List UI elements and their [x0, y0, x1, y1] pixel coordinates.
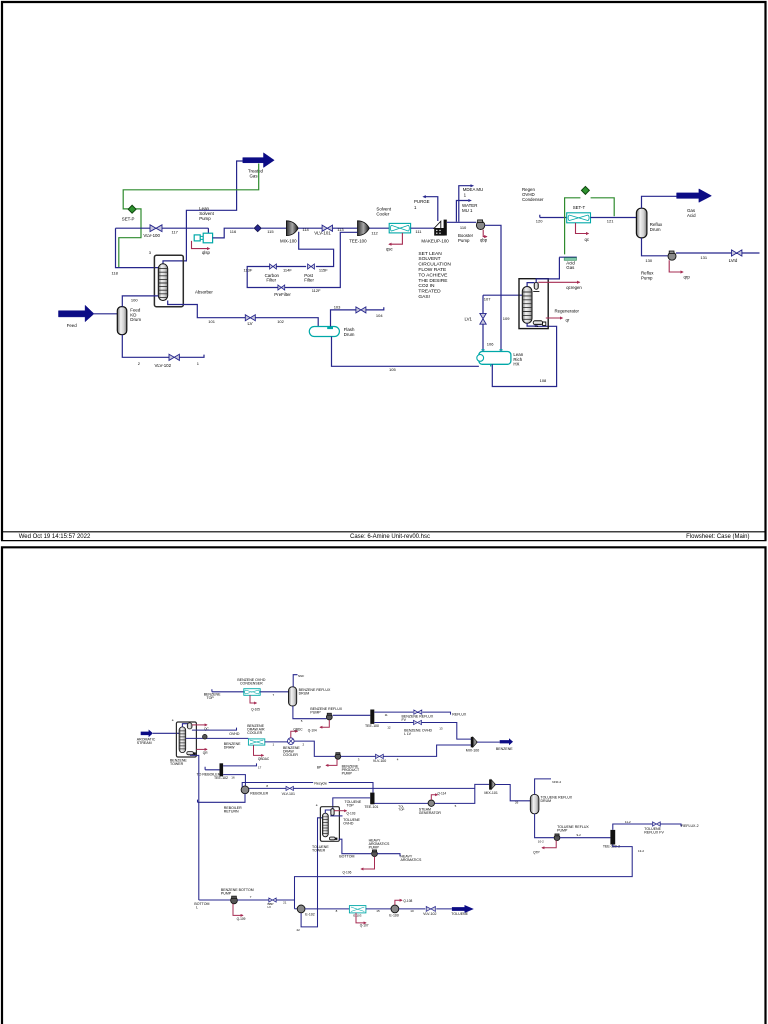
svg-text:SET LEAN: SET LEAN	[418, 251, 442, 257]
pump REBOILER circulation	[241, 786, 249, 794]
svg-text:TOP: TOP	[398, 808, 404, 812]
wire PURGE 1	[426, 197, 438, 221]
wire 107 LV1 to regenerator	[483, 295, 523, 313]
wire 131	[676, 252, 732, 254]
svg-text:RETURN: RETURN	[224, 810, 239, 814]
svg-text:QBDC: QBDC	[293, 728, 303, 732]
svg-text:12: 12	[387, 726, 391, 730]
SET-P diamond	[128, 205, 136, 213]
svg-text:E-102: E-102	[305, 912, 314, 916]
toluene tower box	[320, 807, 339, 842]
wire green SET-T signal	[565, 198, 615, 255]
wire 1	[265, 741, 288, 743]
svg-text:Q-105: Q-105	[251, 707, 260, 711]
wire 100 drum top to absorber	[122, 296, 158, 307]
svg-text:SET-T: SET-T	[573, 205, 586, 210]
wire 16 to reboiler	[223, 775, 245, 786]
energy qlsp	[192, 241, 210, 249]
valve LVrd	[732, 250, 742, 256]
svg-text:Q-108: Q-108	[403, 899, 412, 903]
svg-text:VLV-100: VLV-100	[143, 233, 160, 238]
svg-text:16: 16	[231, 775, 235, 779]
wire drum to reflux pump	[293, 706, 327, 719]
valve VLV-100 (p2)	[376, 754, 384, 758]
svg-text:26: 26	[515, 800, 519, 804]
svg-text:DRUM: DRUM	[541, 799, 552, 803]
svg-text:PUMP: PUMP	[310, 710, 321, 714]
svg-text:BOTTOM: BOTTOM	[339, 855, 354, 859]
wire to BENZENE arrow	[477, 741, 499, 743]
absorber box	[154, 255, 183, 307]
pump Booster Pump	[476, 221, 484, 229]
svg-text:Q-109: Q-109	[237, 917, 246, 921]
svg-text:Pump: Pump	[641, 276, 653, 281]
wire benzene tower bottoms	[190, 755, 199, 900]
svg-text:111: 111	[415, 229, 422, 234]
wire 1	[179, 355, 204, 358]
wire drum top to Gas Acid	[642, 196, 677, 208]
svg-text:COOLER: COOLER	[247, 731, 262, 735]
svg-text:STREAM: STREAM	[137, 741, 152, 745]
svg-text:101: 101	[208, 319, 215, 324]
svg-text:qrp: qrp	[684, 275, 691, 280]
svg-text:BENZENE: BENZENE	[496, 747, 513, 751]
wire feed to KO drum	[94, 313, 117, 315]
pump BENZENE REFLUX PUMP	[326, 714, 332, 720]
filter loop wires	[247, 232, 357, 288]
valve Post Filter	[308, 264, 315, 269]
wire TOLUENE OVHD stub	[330, 815, 342, 817]
svg-text:GENERATOR: GENERATOR	[419, 811, 442, 815]
svg-text:Cooler: Cooler	[376, 211, 389, 216]
wire 117	[116, 227, 209, 229]
tee TEE-100	[358, 221, 370, 236]
energy Q-105	[250, 695, 257, 703]
svg-text:PURGE: PURGE	[414, 199, 430, 204]
energy qc	[576, 223, 589, 234]
svg-text:Q-106: Q-106	[343, 871, 352, 875]
energy qrp	[669, 260, 683, 272]
svg-text:qr: qr	[566, 318, 570, 323]
wire 121	[591, 217, 637, 219]
svg-text:22: 22	[297, 928, 301, 932]
svg-text:DRAW: DRAW	[224, 746, 235, 750]
regenerator column	[522, 287, 532, 324]
svg-text:BENZENE REFLUX: BENZENE REFLUX	[402, 715, 434, 719]
page 1 border frame	[2, 2, 766, 541]
valve VLV-101	[322, 225, 332, 231]
energy qr	[546, 317, 563, 319]
svg-text:VLV-102: VLV-102	[155, 363, 172, 368]
svg-text:MAKEUP-100: MAKEUP-100	[421, 238, 449, 243]
svg-text:Drum: Drum	[344, 332, 355, 337]
mixer MIX-100 (p2)	[471, 737, 473, 747]
wire 130	[642, 238, 668, 256]
svg-text:qcregen: qcregen	[566, 285, 582, 290]
svg-text:Drum: Drum	[130, 317, 141, 322]
wire 120	[540, 215, 567, 218]
vessel Feed KO Drum	[117, 307, 127, 335]
wire BENZENE TOP to condenser	[212, 689, 244, 692]
svg-text:Absorber: Absorber	[195, 289, 213, 294]
energy qcregen	[538, 281, 579, 283]
pump benzene draw	[203, 734, 208, 739]
svg-text:BP: BP	[317, 765, 321, 769]
energy Q-114	[431, 795, 437, 800]
wire 3-4 to MIX	[341, 745, 471, 756]
svg-text:TEE-100: TEE-100	[365, 724, 379, 728]
svg-text:Q-114: Q-114	[438, 791, 447, 795]
svg-text:Flowsheet: Case (Main): Flowsheet: Case (Main)	[686, 534, 749, 540]
svg-text:CONDENSER: CONDENSER	[240, 681, 263, 685]
svg-text:REBOILER: REBOILER	[250, 792, 268, 796]
energy Q-108	[395, 900, 402, 905]
svg-text:118: 118	[112, 270, 119, 275]
wire 17 stub	[223, 763, 256, 766]
regen internal reboiler	[533, 321, 542, 325]
svg-text:17: 17	[258, 765, 262, 769]
wire 10 to VLV-102	[399, 908, 452, 910]
svg-text:105: 105	[389, 367, 396, 372]
wire draw line	[186, 737, 249, 739]
svg-text:MIX-101: MIX-101	[484, 791, 497, 795]
svg-text:131: 131	[700, 255, 707, 260]
tee TEE-100-2 bar	[610, 830, 615, 845]
svg-text:108: 108	[540, 378, 547, 383]
mixer MIX-100	[286, 221, 298, 236]
vessel BENZENE REFLUX DRUM	[289, 687, 297, 706]
svg-text:SET-P: SET-P	[122, 217, 135, 222]
wire 108 HX to regenerator	[492, 325, 556, 387]
svg-text:NNF: NNF	[298, 674, 304, 678]
arrow Gas Acid	[677, 189, 712, 202]
svg-text:11-2: 11-2	[625, 820, 631, 824]
svg-text:112F: 112F	[312, 288, 321, 293]
svg-text:Gas: Gas	[566, 265, 575, 270]
svg-text:Pump: Pump	[458, 238, 470, 243]
svg-text:TO ACHIEVE: TO ACHIEVE	[418, 272, 448, 278]
footer box bottom line	[1, 540, 767, 542]
svg-text:104: 104	[376, 313, 383, 318]
heater STEAM GENERATOR	[428, 800, 434, 806]
wire 7 condenser to reflux drum	[260, 691, 288, 693]
svg-text:106: 106	[487, 341, 494, 346]
absorber column	[158, 264, 167, 301]
energy qsc	[389, 233, 402, 244]
svg-text:DRUM: DRUM	[299, 692, 310, 696]
svg-text:Gas: Gas	[250, 173, 259, 178]
wire reboiler to VLV-101	[249, 787, 475, 789]
benzene tower internal reboiler	[187, 752, 194, 755]
svg-text:CO2 IN: CO2 IN	[418, 283, 435, 289]
wire WATER MU 1	[456, 201, 468, 222]
svg-text:Acid: Acid	[687, 213, 696, 218]
valve LV	[245, 315, 255, 321]
wire HEAVY AROMATICS out	[377, 854, 400, 857]
svg-text:LV: LV	[248, 321, 253, 326]
tee TEE-102 bar	[220, 763, 224, 776]
wire MDEA MU 1	[459, 186, 471, 222]
wire 112	[369, 227, 389, 229]
svg-text:REFLUX: REFLUX	[452, 713, 467, 717]
wire absorber bottoms 101	[168, 301, 246, 318]
svg-text:109: 109	[503, 316, 510, 321]
svg-text:VLV-102: VLV-102	[423, 912, 436, 916]
valve VLV-100	[150, 225, 162, 232]
valve VLV-101 (p2)	[286, 786, 293, 790]
svg-text:L: L	[196, 906, 198, 910]
svg-text:114F: 114F	[283, 268, 292, 273]
wire 118 to absorber	[116, 228, 159, 267]
wire 105 flash to HX	[332, 337, 479, 367]
wire pump to TEE-100-2	[560, 837, 611, 839]
vessel Flash Drum	[309, 327, 339, 337]
svg-text:Filter: Filter	[304, 278, 314, 283]
wire REBOILER RETURN	[198, 794, 246, 803]
svg-text:TEE-102: TEE-102	[214, 776, 228, 780]
wire Recycle	[242, 783, 373, 793]
svg-text:CIRCULATION: CIRCULATION	[418, 262, 451, 268]
svg-text:L LV: L LV	[404, 732, 412, 736]
wire 103	[331, 310, 357, 327]
pump BENZENE BOTTOM PUMP	[231, 897, 238, 904]
svg-text:102: 102	[277, 319, 284, 324]
wire 109 booster to HX	[485, 225, 501, 351]
wire green SET-P signal	[123, 164, 259, 209]
valve BENZENE OVHD L LV	[414, 720, 422, 724]
svg-text:TOLUENE: TOLUENE	[451, 912, 468, 916]
svg-text:114: 114	[302, 227, 309, 232]
wire after LVrd	[742, 252, 760, 254]
svg-text:LVrd: LVrd	[729, 258, 738, 263]
svg-text:117: 117	[172, 229, 179, 234]
pump Reflux Pump	[668, 252, 676, 260]
wire 110	[447, 221, 476, 223]
svg-text:THE DESIRE: THE DESIRE	[418, 278, 448, 284]
svg-text:9-2: 9-2	[577, 833, 582, 837]
svg-text:Feed: Feed	[67, 323, 78, 328]
valve BBP LV	[269, 898, 276, 902]
wire 5 to MIX-101	[435, 784, 490, 803]
toluene tower internal reboiler	[329, 837, 335, 840]
svg-text:115: 115	[267, 229, 274, 234]
energy QR	[196, 748, 207, 750]
svg-text:PUMP: PUMP	[557, 828, 568, 832]
svg-text:113F: 113F	[244, 268, 253, 273]
wire OVHD stub	[192, 728, 237, 731]
wire 104	[366, 307, 384, 310]
wire 116 pump suction	[213, 228, 254, 238]
energy Q-107	[356, 913, 366, 923]
svg-text:TOP: TOP	[207, 696, 215, 700]
energy Q-103	[334, 810, 346, 812]
svg-text:COOLER: COOLER	[283, 753, 298, 757]
valve 103-104	[356, 307, 366, 313]
junction diamond on lean line	[254, 225, 261, 232]
svg-text:VLV-101: VLV-101	[314, 231, 331, 236]
svg-text:Pump: Pump	[199, 216, 211, 221]
arrow Feed	[59, 305, 95, 321]
svg-text:Q-104: Q-104	[308, 728, 317, 732]
blue annotation note	[418, 251, 451, 300]
tee TEE-101 bar	[370, 793, 374, 805]
svg-text:TEE-101: TEE-101	[364, 805, 378, 809]
wire regen bottoms	[527, 323, 537, 326]
cooler BENZENE DRAW AIR COOLER	[248, 739, 264, 745]
svg-text:qbp: qbp	[480, 238, 488, 243]
toluene tower internal condenser	[325, 810, 331, 813]
svg-text:107: 107	[484, 297, 491, 302]
svg-text:PreFilter: PreFilter	[274, 292, 291, 297]
wire regen overhead to Acid Gas	[536, 257, 559, 282]
wire feed to benzene tower	[153, 732, 179, 734]
valve BENZENE REFLUX FV	[414, 710, 422, 714]
energy BP	[326, 759, 337, 765]
wire into E-102	[295, 908, 298, 910]
svg-text:AROMATICS: AROMATICS	[401, 858, 422, 862]
valve PreFilter	[278, 285, 285, 290]
regen internal condenser	[527, 283, 534, 287]
wire 102	[255, 318, 318, 327]
wire NNF vent	[293, 675, 297, 687]
svg-text:103: 103	[334, 304, 341, 309]
energy Q-106	[361, 857, 375, 869]
svg-text:qsc: qsc	[386, 247, 394, 252]
svg-text:130: 130	[645, 258, 652, 263]
wire treated gas from absorber top	[163, 161, 243, 264]
svg-text:TEE-100: TEE-100	[349, 238, 367, 243]
arrow TOLUENE	[452, 905, 474, 913]
energy QBDC	[291, 731, 298, 738]
svg-text:Wed Oct 19 14:15:57 2022: Wed Oct 19 14:15:57 2022	[19, 534, 91, 540]
benzene tower box	[176, 722, 196, 757]
makeup MAKEUP-100	[434, 221, 441, 228]
svg-text:13-2: 13-2	[638, 849, 644, 853]
cooler Regen OVHD Condenser	[567, 213, 591, 223]
svg-text:TREATED: TREATED	[418, 289, 441, 295]
wire benzene bottoms to pump	[199, 899, 231, 901]
svg-text:PUMP: PUMP	[342, 772, 353, 776]
svg-text:VLV-101: VLV-101	[282, 792, 295, 796]
svg-text:112: 112	[371, 230, 378, 235]
regenerator box	[519, 279, 548, 329]
wire drum to toluene reflux pump	[535, 814, 554, 838]
footer box top line	[1, 531, 767, 533]
svg-text:QBDAC: QBDAC	[258, 757, 270, 761]
cooler E-103	[349, 906, 366, 913]
valve VLV-102	[169, 354, 179, 360]
wire 115	[261, 227, 286, 229]
svg-text:HX: HX	[513, 362, 519, 367]
svg-text:115F: 115F	[319, 268, 328, 273]
svg-text:PUMP: PUMP	[369, 846, 380, 850]
valve LV1	[480, 313, 486, 324]
pump Lean Solvent Pump	[207, 228, 209, 233]
svg-text:Case: 6-Amine Unit-rev00.hsc: Case: 6-Amine Unit-rev00.hsc	[350, 534, 430, 540]
wire 113	[333, 227, 358, 229]
wire 2 to product pump	[294, 741, 335, 756]
wire 111	[411, 227, 434, 229]
svg-text:LV1: LV1	[465, 316, 473, 321]
svg-text:MDEA MU: MDEA MU	[463, 187, 484, 192]
svg-text:VLV-100: VLV-100	[373, 759, 386, 763]
svg-text:21: 21	[283, 900, 287, 904]
wire toluene bottoms	[339, 839, 372, 854]
page 2 border frame	[2, 547, 766, 1024]
exchanger E-102	[297, 905, 305, 913]
wire NNF-2 vent	[535, 779, 551, 795]
wire 26 to toluene reflux drum	[496, 785, 531, 801]
wire drum bottom to VLV-102	[122, 335, 169, 358]
benzene tower internal condenser	[182, 724, 188, 727]
wire 8 to E-103	[305, 908, 349, 910]
wire BENZENE OVHD LLV line	[374, 723, 471, 740]
tee TEE-100 bar	[370, 710, 374, 724]
wire TEE-101 to steam generator	[375, 802, 429, 804]
svg-text:E-103: E-103	[353, 913, 361, 917]
svg-text:MU 1: MU 1	[462, 208, 473, 213]
cooler BENZENE OVHD CONDENSER	[244, 689, 260, 696]
cooler BENZENE DRAW COOLER	[288, 738, 295, 745]
svg-text:GAS!: GAS!	[418, 294, 430, 300]
svg-text:110: 110	[460, 225, 467, 230]
toluene tower column	[322, 813, 328, 837]
svg-text:PUMP: PUMP	[221, 891, 232, 895]
arrow Treated Gas	[243, 153, 274, 168]
svg-text:NNF-2: NNF-2	[552, 780, 561, 784]
svg-text:OVHD: OVHD	[229, 732, 240, 736]
svg-text:Regenerator: Regenerator	[555, 309, 580, 314]
wire 114	[298, 227, 322, 229]
heat exchanger Lean Rich HX	[479, 352, 511, 365]
svg-text:Filter: Filter	[266, 278, 276, 283]
wire REFLUX-2 line	[613, 824, 681, 830]
svg-text:11: 11	[385, 713, 388, 717]
pump BENZENE PRODUCT PUMP	[335, 754, 341, 760]
exchanger E-100	[391, 905, 399, 913]
pump TOLUENE REFLUX PUMP	[554, 835, 560, 841]
svg-text:Drum: Drum	[650, 227, 661, 232]
svg-text:FV: FV	[402, 718, 407, 722]
energy QBDAC	[254, 745, 264, 755]
wire TOLUENE TOP	[333, 798, 370, 809]
stream stub Acid Gas	[559, 256, 577, 258]
svg-text:121: 121	[607, 218, 614, 223]
svg-text:QTP: QTP	[533, 850, 540, 854]
benzene tower column	[179, 727, 186, 753]
svg-text:E-100: E-100	[389, 913, 398, 917]
energy Q-109	[233, 904, 243, 916]
wire 13-2 down and across	[295, 845, 633, 909]
valve VLV-102 (p2)	[426, 906, 435, 911]
arrow AROMATIC STREAM	[141, 730, 153, 738]
vessel TOLUENE REFLUX DRUM	[530, 794, 539, 813]
svg-text:100: 100	[131, 298, 138, 303]
svg-text:10: 10	[410, 909, 414, 913]
wire TO REBOILER stub	[205, 767, 219, 770]
energy QC	[192, 724, 207, 726]
svg-text:qlsp: qlsp	[202, 250, 210, 255]
vessel Reflux Drum	[636, 208, 647, 238]
svg-text:REFLUX FV: REFLUX FV	[644, 831, 664, 835]
svg-text:15: 15	[376, 909, 380, 913]
cooler Solvent Cooler	[389, 223, 410, 233]
wire 106	[482, 324, 484, 351]
svg-text:Recycle: Recycle	[314, 781, 327, 785]
wire REFLUX line	[374, 712, 450, 715]
svg-text:Q-103: Q-103	[347, 812, 356, 816]
svg-text:Q-107: Q-107	[360, 924, 369, 928]
